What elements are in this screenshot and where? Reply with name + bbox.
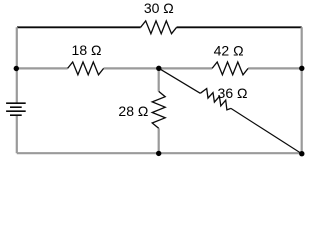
resistor 28ohm <box>152 91 165 128</box>
wire middle horizontal segment 2 <box>104 67 213 69</box>
svg-text:42 Ω: 42 Ω <box>214 42 244 58</box>
node bottom-center junction <box>156 151 161 156</box>
wire diagonal lower <box>231 108 302 153</box>
svg-text:36 Ω: 36 Ω <box>218 85 248 101</box>
wire diagonal <box>159 68 201 93</box>
wire left <box>16 27 18 103</box>
resistor 30ohm <box>141 21 177 34</box>
svg-text:18 Ω: 18 Ω <box>72 42 102 58</box>
resistor 36ohm <box>200 89 231 110</box>
node right-middle junction <box>299 66 304 71</box>
wire left lower <box>16 115 18 153</box>
node left-middle junction <box>14 66 19 71</box>
wire center vertical upper <box>158 68 160 91</box>
node bottom-right junction <box>299 151 304 156</box>
wire top left segment <box>17 26 141 28</box>
wire middle horizontal segment 3 <box>248 67 302 69</box>
node center junction <box>156 66 161 71</box>
wire bottom <box>17 152 302 154</box>
wire right <box>301 27 303 153</box>
svg-text:28 Ω: 28 Ω <box>118 103 148 119</box>
battery <box>6 103 26 115</box>
svg-text:30 Ω: 30 Ω <box>144 0 174 16</box>
wire middle horizontal segment 1 <box>16 67 67 69</box>
wire center vertical lower <box>158 128 160 153</box>
resistor 18ohm <box>68 62 104 75</box>
wire top right segment <box>177 26 302 28</box>
resistor 42ohm <box>212 62 248 75</box>
